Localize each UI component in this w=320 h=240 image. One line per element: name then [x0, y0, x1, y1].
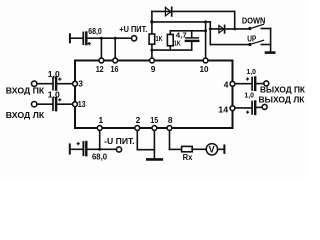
svg-text:2: 2: [136, 115, 141, 125]
svg-text:16: 16: [111, 64, 119, 74]
svg-text:1,0: 1,0: [48, 70, 61, 79]
svg-text:1,0: 1,0: [48, 90, 61, 99]
svg-text:68,0: 68,0: [92, 152, 107, 162]
svg-text:ВЫХОД ЛК: ВЫХОД ЛК: [259, 95, 306, 105]
svg-text:68,0: 68,0: [88, 27, 102, 36]
svg-text:1,0: 1,0: [246, 67, 256, 76]
svg-text:ВЫХОД ПК: ВЫХОД ПК: [260, 85, 306, 95]
svg-text:14: 14: [218, 104, 228, 114]
svg-text:4: 4: [224, 80, 229, 90]
svg-text:13: 13: [78, 99, 86, 109]
svg-text:ВХОД ПК: ВХОД ПК: [6, 86, 45, 96]
svg-text:ВХОД ЛК: ВХОД ЛК: [6, 110, 45, 120]
svg-text:1K: 1K: [174, 39, 181, 48]
svg-text:12: 12: [96, 64, 104, 74]
svg-text:1K: 1K: [156, 34, 163, 43]
svg-text:9: 9: [151, 64, 156, 74]
svg-text:Rх: Rх: [183, 153, 193, 162]
svg-text:10: 10: [200, 64, 209, 74]
svg-text:1,0: 1,0: [244, 90, 254, 99]
svg-text:1: 1: [99, 115, 104, 125]
svg-text:15: 15: [150, 115, 158, 125]
svg-text:3: 3: [78, 78, 83, 88]
svg-text:UP: UP: [247, 34, 256, 43]
svg-text:DOWN: DOWN: [242, 16, 266, 25]
svg-text:8: 8: [168, 115, 173, 125]
svg-text:-U ПИТ.: -U ПИТ.: [104, 137, 135, 146]
svg-text:V: V: [209, 145, 215, 155]
svg-text:4,7: 4,7: [176, 30, 187, 39]
svg-text:+U ПИТ.: +U ПИТ.: [119, 25, 147, 34]
